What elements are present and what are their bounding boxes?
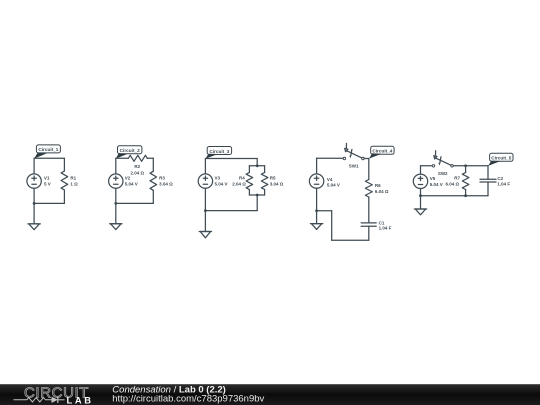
voltage source V1 xyxy=(27,174,41,188)
resistor R3 xyxy=(150,171,157,190)
wire R7 bottom lead xyxy=(465,190,467,196)
junction R7 bottom xyxy=(464,194,467,197)
node label Circuit_5 xyxy=(490,153,513,161)
wire left lower C1 xyxy=(33,188,35,203)
wire left upper C1 xyxy=(33,158,35,174)
wire bottom C5 xyxy=(421,195,489,197)
svg-text:2.04 Ω: 2.04 Ω xyxy=(232,181,246,186)
junction R7 top xyxy=(464,164,467,167)
resistor R6 xyxy=(365,180,372,198)
svg-text:R6: R6 xyxy=(375,183,381,188)
wire bottom drop C3 xyxy=(256,195,258,211)
resistor R7 xyxy=(462,173,469,190)
wire top drop C3 xyxy=(256,159,258,166)
ground C2 xyxy=(110,224,122,230)
voltage source V3 xyxy=(198,174,212,188)
wire right upper C5 xyxy=(487,166,489,179)
svg-text:V1: V1 xyxy=(44,176,50,181)
logo diode xyxy=(52,397,58,403)
ground C4 xyxy=(310,224,322,230)
capacitor C1 xyxy=(361,223,376,226)
svg-text:V3: V3 xyxy=(215,176,221,181)
wire top left C4 xyxy=(317,157,344,159)
callout pointer Circuit_4 xyxy=(369,153,382,158)
wire left lower C3 xyxy=(204,188,206,210)
node label Circuit_1 xyxy=(36,145,60,153)
wire R7 top lead xyxy=(465,166,467,173)
wire left lower C5 xyxy=(420,189,422,196)
svg-text:SW2: SW2 xyxy=(438,171,448,176)
node label Circuit_2 xyxy=(118,146,142,154)
svg-text:V2: V2 xyxy=(125,176,131,181)
wire ground stem C5 xyxy=(420,196,422,209)
junction C1 xyxy=(33,202,36,205)
wire bottom C3 xyxy=(205,210,257,212)
wire top right C2 xyxy=(147,157,153,159)
svg-text:5.04 V: 5.04 V xyxy=(430,182,443,187)
logo wire and resistor xyxy=(14,398,52,402)
svg-text:3.04 Ω: 3.04 Ω xyxy=(270,181,284,186)
junction C2 xyxy=(114,202,117,205)
wire node link C4 xyxy=(317,210,332,212)
ground C5 xyxy=(414,209,426,215)
svg-text:SW1: SW1 xyxy=(349,164,359,169)
wire R5 top lead xyxy=(264,166,266,173)
ground C1 xyxy=(28,224,40,230)
svg-text:R4: R4 xyxy=(239,176,245,181)
switch SW2 xyxy=(432,151,453,167)
callout pointer Circuit_5 xyxy=(488,161,501,166)
switch SW1 xyxy=(343,143,364,159)
callout pointer Circuit_1 xyxy=(34,153,47,159)
svg-text:Circuit_2: Circuit_2 xyxy=(120,148,140,153)
wire R5 bottom lead xyxy=(264,190,266,196)
svg-text:2.04 Ω: 2.04 Ω xyxy=(130,170,144,175)
svg-text:Circuit_3: Circuit_3 xyxy=(209,149,229,154)
voltage source V2 xyxy=(109,174,123,188)
wire right upper C1 xyxy=(63,158,65,171)
svg-text:R3: R3 xyxy=(159,176,165,181)
junction top C3 xyxy=(256,164,259,167)
footer bar xyxy=(0,384,540,405)
wire bottom C1 xyxy=(34,202,64,204)
wire R4 top lead xyxy=(248,166,250,173)
resistor R5 xyxy=(261,173,268,190)
wire R6 to C1 xyxy=(368,197,370,223)
wire left lower C2 xyxy=(115,188,117,203)
wire right upper C4 xyxy=(368,159,370,180)
wire left upper C4 xyxy=(316,158,318,174)
wire left lower C4 xyxy=(316,188,318,211)
wire top right C5 xyxy=(453,165,488,167)
svg-text:R1: R1 xyxy=(70,176,76,181)
svg-text:Circuit_1: Circuit_1 xyxy=(38,147,58,152)
junction C3 xyxy=(204,209,207,212)
svg-text:3.04 Ω: 3.04 Ω xyxy=(159,181,173,186)
junction bottom bar C3 xyxy=(256,194,259,197)
wire ground stem C1 xyxy=(33,203,35,224)
wire right lower C5 xyxy=(487,182,489,196)
svg-text:LAB: LAB xyxy=(67,394,94,405)
wire left upper C3 xyxy=(204,159,206,174)
svg-text:1.04 F: 1.04 F xyxy=(497,182,510,187)
wire bottom bar parallel C3 xyxy=(249,194,264,196)
svg-text:5 V: 5 V xyxy=(44,181,51,186)
svg-text:R2: R2 xyxy=(134,164,140,169)
resistor R2 xyxy=(128,155,147,161)
wire bottom riser C4 xyxy=(331,211,333,241)
wire ground stem C4 xyxy=(316,211,318,224)
wire ground stem C2 xyxy=(115,203,117,223)
svg-text:C2: C2 xyxy=(497,176,503,181)
resistor R4 xyxy=(246,173,253,190)
wire C1 bottom lead xyxy=(368,226,370,240)
callout pointer Circuit_2 xyxy=(116,153,128,158)
wire bottom C2 xyxy=(116,202,154,204)
svg-text:6.04 Ω: 6.04 Ω xyxy=(446,181,460,186)
svg-text:1 Ω: 1 Ω xyxy=(70,181,78,186)
wire right lower C2 xyxy=(152,190,154,203)
voltage source V5 xyxy=(413,174,427,188)
wire left upper C5 xyxy=(420,166,422,174)
wire top C3 xyxy=(205,158,257,160)
resistor R1 xyxy=(61,171,68,190)
wire R4 bottom lead xyxy=(248,190,250,196)
svg-text:R7: R7 xyxy=(454,176,460,181)
svg-text:R5: R5 xyxy=(270,176,276,181)
wire left upper C2 xyxy=(115,158,117,174)
wire right upper C2 xyxy=(152,158,154,171)
wire top right C4 xyxy=(364,158,369,160)
svg-text:6.04 Ω: 6.04 Ω xyxy=(375,189,389,194)
svg-text:Circuit_4: Circuit_4 xyxy=(372,149,392,154)
svg-text:1.04 F: 1.04 F xyxy=(379,226,392,231)
capacitor C2 xyxy=(480,179,496,182)
svg-text:5.04 V: 5.04 V xyxy=(327,182,340,187)
svg-text:V4: V4 xyxy=(327,177,333,182)
wire top left C2 xyxy=(116,157,129,159)
ground C3 xyxy=(199,232,211,238)
junction C4 xyxy=(315,209,318,212)
svg-text:5.04 V: 5.04 V xyxy=(215,181,228,186)
callout pointer Circuit_3 xyxy=(205,154,218,159)
node label Circuit_4 xyxy=(371,146,394,154)
voltage source V4 xyxy=(309,174,323,188)
wire top left C5 xyxy=(421,165,433,167)
node label Circuit_3 xyxy=(207,147,231,155)
svg-text:5.04 V: 5.04 V xyxy=(125,181,138,186)
svg-text:Circuit_5: Circuit_5 xyxy=(491,156,511,161)
junction ground C5 xyxy=(419,194,422,197)
wire right lower C1 xyxy=(63,190,65,203)
svg-text:V5: V5 xyxy=(430,176,436,181)
wire bottom C4 xyxy=(332,239,369,241)
wire top C1 xyxy=(34,157,64,159)
svg-text:http://circuitlab.com/c783p973: http://circuitlab.com/c783p9736n9bv xyxy=(112,393,264,404)
wire top bar parallel C3 xyxy=(249,165,264,167)
wire ground stem C3 xyxy=(204,211,206,232)
